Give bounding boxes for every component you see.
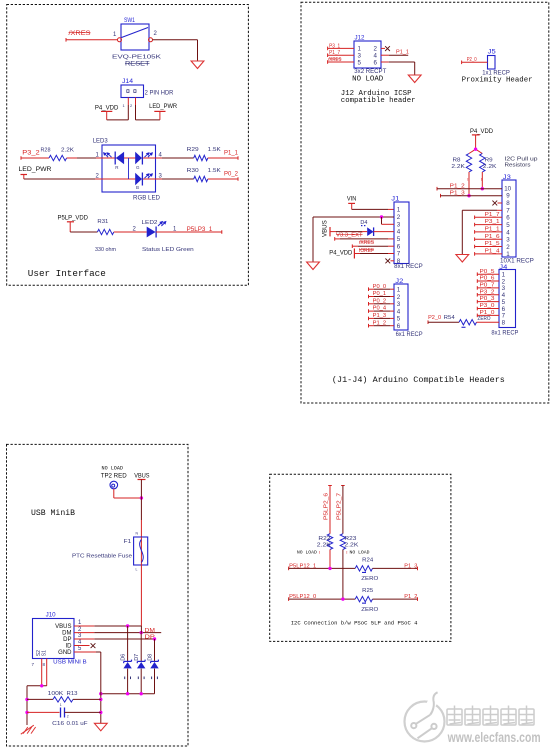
- svg-text:C16: C16: [52, 721, 64, 727]
- svg-text:VBUS: VBUS: [322, 220, 329, 237]
- svg-text:compatible header: compatible header: [341, 97, 416, 105]
- svg-text:2: 2: [397, 294, 401, 301]
- svg-text:2 PIN HDR: 2 PIN HDR: [145, 90, 174, 97]
- svg-text:P3_2: P3_2: [22, 151, 40, 157]
- svg-text:G: G: [136, 165, 140, 170]
- svg-text:EVQ-PE105K: EVQ-PE105K: [112, 54, 161, 60]
- svg-text:NO LOAD: NO LOAD: [297, 550, 317, 556]
- svg-text:DP: DP: [63, 637, 71, 643]
- svg-text:P5LP2_6: P5LP2_6: [324, 493, 330, 520]
- svg-text:!: !: [481, 177, 482, 182]
- svg-text:6: 6: [397, 243, 401, 250]
- svg-text:P3_1: P3_1: [329, 43, 340, 49]
- svg-text:2.2K: 2.2K: [317, 542, 331, 548]
- svg-text:4: 4: [397, 229, 401, 236]
- svg-text:D4: D4: [360, 220, 367, 226]
- svg-text:P2_0: P2_0: [428, 315, 441, 321]
- svg-text:6x1 RECP: 6x1 RECP: [396, 332, 423, 338]
- svg-text:P4_VDD: P4_VDD: [470, 128, 494, 135]
- svg-text:/XRES: /XRES: [359, 240, 374, 246]
- svg-text:Proximity Header: Proximity Header: [462, 77, 533, 85]
- svg-text:P1_4: P1_4: [485, 249, 500, 255]
- svg-text:8: 8: [506, 200, 510, 207]
- svg-text:ZERO: ZERO: [478, 316, 491, 322]
- svg-text:100K: 100K: [48, 691, 64, 697]
- svg-text:4: 4: [506, 229, 510, 236]
- svg-text:P4_VDD: P4_VDD: [95, 105, 119, 112]
- svg-text:LED2: LED2: [142, 220, 158, 226]
- svg-text:/XRES: /XRES: [328, 57, 341, 63]
- svg-text:0.01 uF: 0.01 uF: [67, 721, 88, 727]
- svg-text:Status LED Green: Status LED Green: [142, 247, 194, 253]
- svg-text:P1_3: P1_3: [404, 563, 417, 569]
- svg-text:P3_1: P3_1: [485, 219, 500, 225]
- svg-text:6: 6: [397, 323, 401, 330]
- svg-text:D6: D6: [120, 654, 126, 661]
- svg-text:R29: R29: [187, 147, 199, 153]
- svg-text:7: 7: [506, 207, 510, 214]
- svg-text:2: 2: [506, 244, 510, 251]
- svg-text:P0_3: P0_3: [480, 296, 495, 302]
- svg-text:R31: R31: [97, 219, 108, 225]
- svg-text:R8: R8: [453, 158, 461, 164]
- svg-text:S1: S1: [42, 650, 48, 656]
- svg-text:5: 5: [358, 59, 362, 66]
- svg-text:P0_2: P0_2: [224, 172, 239, 178]
- svg-text:P1_2: P1_2: [404, 594, 417, 600]
- svg-text:DM: DM: [145, 628, 156, 634]
- svg-text:L: L: [136, 568, 138, 572]
- svg-text:P0_4: P0_4: [373, 306, 387, 312]
- svg-text:LED_PWR: LED_PWR: [149, 103, 177, 110]
- svg-text:P1_3: P1_3: [450, 191, 465, 197]
- svg-text:NO LOAD: NO LOAD: [102, 466, 124, 472]
- svg-text:LED_PWR: LED_PWR: [19, 166, 53, 173]
- svg-text:R25: R25: [362, 588, 373, 594]
- svg-text:P0_5: P0_5: [480, 269, 495, 275]
- svg-text:1: 1: [397, 287, 401, 294]
- svg-text:5: 5: [506, 222, 510, 229]
- svg-text:P1_2: P1_2: [373, 320, 387, 326]
- svg-text:P5LP_VDD: P5LP_VDD: [58, 215, 89, 222]
- svg-text:D7: D7: [134, 654, 140, 661]
- svg-text:RESET: RESET: [125, 62, 150, 68]
- svg-text:D8: D8: [147, 654, 153, 661]
- svg-text:P5LP2_7: P5LP2_7: [337, 493, 343, 520]
- svg-text:Resistors: Resistors: [505, 163, 531, 169]
- svg-text:P1_7: P1_7: [485, 212, 500, 218]
- svg-text:J10: J10: [46, 612, 56, 619]
- svg-text:R9: R9: [485, 158, 493, 164]
- svg-text:1: 1: [60, 703, 62, 707]
- svg-text:J1: J1: [391, 196, 399, 203]
- svg-text:VBUS: VBUS: [134, 473, 149, 480]
- svg-text:R30: R30: [187, 168, 199, 174]
- svg-text:LED3: LED3: [93, 138, 109, 145]
- svg-text:9: 9: [506, 193, 510, 200]
- svg-text:P1_3: P1_3: [373, 313, 387, 319]
- svg-text:P0_2: P0_2: [373, 298, 387, 304]
- svg-text:6: 6: [374, 59, 378, 66]
- svg-text:1: 1: [397, 207, 401, 214]
- svg-text:www.elecfans.com: www.elecfans.com: [447, 730, 541, 745]
- svg-text:DM: DM: [62, 631, 71, 637]
- svg-text:R22: R22: [318, 536, 330, 542]
- svg-text:V3.3_EXT: V3.3_EXT: [336, 233, 363, 239]
- svg-text:P1_7: P1_7: [329, 50, 340, 56]
- svg-text:3: 3: [397, 301, 401, 308]
- svg-text:P0_0: P0_0: [373, 284, 387, 290]
- svg-text:P1_1: P1_1: [224, 151, 239, 157]
- svg-text:!: !: [319, 550, 320, 555]
- svg-text:(J1-J4) Arduino Compatible Hea: (J1-J4) Arduino Compatible Headers: [332, 375, 505, 385]
- svg-text:IOREF: IOREF: [359, 248, 375, 254]
- svg-text:1: 1: [506, 251, 510, 258]
- svg-text:5: 5: [397, 316, 401, 323]
- svg-text:PTC Resettable Fuse: PTC Resettable Fuse: [72, 554, 132, 560]
- svg-text:P5LP3_1: P5LP3_1: [187, 227, 213, 233]
- svg-text:10: 10: [504, 185, 511, 192]
- svg-text:USB MiniB: USB MiniB: [31, 508, 75, 518]
- svg-text:3x2 RECPT: 3x2 RECPT: [354, 69, 386, 75]
- svg-text:6: 6: [506, 215, 510, 222]
- svg-text:3: 3: [506, 237, 510, 244]
- svg-text:R54: R54: [444, 315, 455, 321]
- svg-text:5: 5: [397, 236, 401, 243]
- svg-text:3: 3: [397, 221, 401, 228]
- svg-text:VIN: VIN: [347, 196, 356, 203]
- svg-text:/XRES: /XRES: [69, 31, 91, 37]
- svg-text:2.2K: 2.2K: [483, 164, 497, 170]
- svg-text:RGB LED: RGB LED: [133, 194, 161, 201]
- svg-text:P3_2: P3_2: [480, 289, 495, 295]
- svg-text:P1_2: P1_2: [450, 184, 465, 190]
- svg-text:R13: R13: [67, 691, 78, 697]
- svg-text:P0_6: P0_6: [480, 276, 495, 282]
- svg-text:2.2K: 2.2K: [344, 542, 358, 548]
- svg-text:P0_1: P0_1: [373, 291, 387, 297]
- svg-text:1.5K: 1.5K: [208, 147, 221, 153]
- svg-text:2.2K: 2.2K: [61, 148, 74, 154]
- svg-text:ZERO: ZERO: [361, 576, 379, 582]
- svg-text:P0_7: P0_7: [480, 283, 495, 289]
- svg-text:1.5K: 1.5K: [208, 168, 221, 174]
- svg-text:!: !: [467, 177, 468, 182]
- svg-text:R24: R24: [362, 557, 373, 563]
- svg-text:2: 2: [397, 214, 401, 221]
- svg-text:I2C Connection b/w PSoC 5LP an: I2C Connection b/w PSoC 5LP and PSoC 4: [291, 620, 418, 627]
- svg-text:2: 2: [67, 715, 69, 719]
- svg-text:R23: R23: [344, 536, 356, 542]
- svg-text:8: 8: [502, 320, 506, 327]
- svg-text:DP: DP: [145, 634, 156, 640]
- svg-text:USB MINI B: USB MINI B: [53, 660, 87, 666]
- svg-text:8x1 RECP: 8x1 RECP: [491, 331, 518, 337]
- svg-text:P1_1: P1_1: [485, 227, 500, 233]
- svg-text:ZERO: ZERO: [361, 607, 379, 613]
- svg-text:ID: ID: [66, 644, 73, 650]
- svg-text:!: !: [346, 550, 347, 555]
- svg-text:GND: GND: [58, 650, 72, 656]
- svg-text:7: 7: [397, 251, 401, 258]
- svg-text:NO LOAD: NO LOAD: [350, 550, 370, 556]
- svg-text:TP2 RED: TP2 RED: [101, 473, 128, 480]
- svg-text:P4_VDD: P4_VDD: [329, 249, 353, 256]
- svg-text:B: B: [136, 185, 139, 190]
- svg-text:User Interface: User Interface: [28, 268, 106, 279]
- svg-text:J5: J5: [488, 49, 496, 56]
- svg-text:2.2K: 2.2K: [451, 164, 465, 170]
- svg-text:F1: F1: [124, 539, 132, 545]
- svg-text:8x1 RECP: 8x1 RECP: [394, 264, 423, 270]
- svg-text:P1_1: P1_1: [396, 49, 409, 55]
- svg-text:P3_0: P3_0: [480, 303, 495, 309]
- svg-text:J14: J14: [122, 78, 133, 85]
- svg-text:P1_0: P1_0: [480, 310, 495, 316]
- svg-text:4: 4: [397, 308, 401, 315]
- svg-text:P1_6: P1_6: [485, 234, 500, 240]
- svg-text:P1_5: P1_5: [485, 241, 500, 247]
- svg-text:R28: R28: [41, 148, 51, 154]
- svg-text:330 ohm: 330 ohm: [95, 247, 116, 253]
- svg-text:VBUS: VBUS: [55, 624, 71, 630]
- svg-text:NO LOAD: NO LOAD: [352, 75, 384, 83]
- svg-text:SW1: SW1: [124, 17, 135, 24]
